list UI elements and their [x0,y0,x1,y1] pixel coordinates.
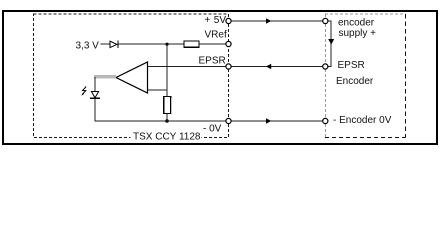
vertical bus from VRef node down to resistor [166,44,168,96]
wire +5V module pin to encoder [231,20,323,22]
wire 0V module to encoder [231,120,323,122]
encoder box left edge (gray dashed) [324,14,326,138]
wire resistor to 0V rail [166,114,168,122]
encoder box top edge (gray dashed) [325,13,406,15]
pin encoder supply+ [323,18,328,23]
wire EPSR inside module (op-amp + input to pin) [148,66,227,68]
svg-text:- Encoder 0V: - Encoder 0V [333,115,392,126]
svg-text:3,3 V: 3,3 V [76,40,100,51]
wire EPSR module to encoder [231,66,323,68]
wire LED to 0V rail [94,98,96,121]
wire diode to VRef resistor [119,43,185,45]
outer frame [3,11,437,144]
pin +5V module [226,18,231,23]
pin encoder EPSR [323,64,328,69]
svg-text:supply +: supply + [339,28,377,39]
svg-text:- 0V: - 0V [203,124,222,135]
svg-text:VRef: VRef [205,29,227,40]
arrow right on +5V wire [266,18,271,24]
pin EPSR module [226,64,231,69]
gray output stub from op-amp apex [94,75,116,78]
op-amp comparator (points left) [116,62,148,93]
wire resistor to VRef pin [199,43,226,45]
diode 3,3V [110,41,117,47]
lightning arrow at LED [82,87,86,95]
svg-text:encoder: encoder [338,17,375,28]
op-amp inverting input wire [148,89,168,91]
pin 0V module [226,118,231,123]
arrow right on 0V wire [266,118,271,124]
svg-text:+: + [205,15,211,26]
encoder internal link supply+ to EPSR [328,21,331,67]
resistor VRef (horizontal) [184,41,199,47]
pin VRef module [226,41,231,46]
junction node on VRef line [165,43,168,46]
wire 3,3V to diode [101,43,111,45]
svg-text:5V: 5V [214,15,227,26]
svg-text:TSX CCY 1128: TSX CCY 1128 [133,131,201,142]
svg-text:Encoder: Encoder [336,76,374,87]
encoder box right edge (dashed) [405,14,407,138]
LED diode (points down) [91,92,98,98]
wire output down to LED [94,77,96,92]
junction node on 0V rail [165,119,169,123]
svg-text:EPSR: EPSR [199,55,226,66]
arrow left on EPSR wire [266,64,271,70]
module box TSX CCY 1128 (dashed) [34,14,229,138]
pin encoder 0V [323,118,328,123]
encoder box bottom edge (dashed) [325,137,406,139]
arrow down on encoder internal link [328,39,334,45]
resistor to 0V (vertical) [164,97,171,114]
svg-text:EPSR: EPSR [338,60,365,71]
0V rail inside module [95,120,226,122]
label TSX CCY 1128 [131,131,202,141]
